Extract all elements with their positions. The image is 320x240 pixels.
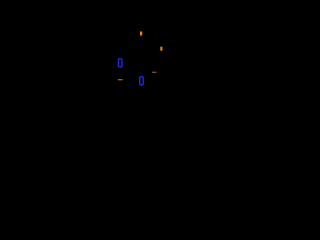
oxygen label O2 bbox=[140, 77, 144, 85]
bond stub (C=O) middle right bbox=[160, 47, 162, 51]
bond stub to O2 bbox=[152, 72, 157, 73]
oxygen label O1 bbox=[118, 59, 122, 67]
bond stub (C=O) upper bbox=[140, 32, 142, 36]
bond stub to O1 bbox=[118, 79, 123, 80]
